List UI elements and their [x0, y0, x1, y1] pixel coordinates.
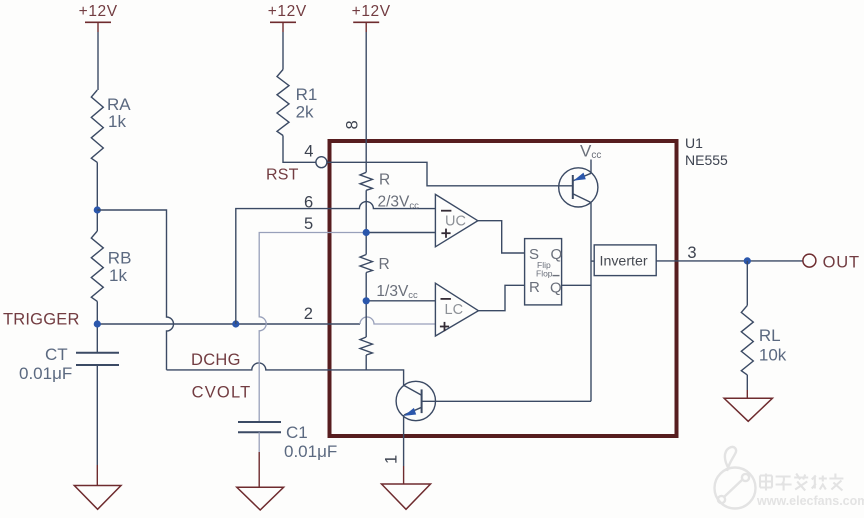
wire DCHG horizontal pin 7 (hops CVOLT)	[167, 363, 404, 385]
ground symbol 4	[724, 398, 772, 421]
resistor R1	[277, 70, 289, 136]
wire LC output to FF R	[478, 285, 524, 310]
svg-text:+12V: +12V	[79, 3, 118, 20]
wire Q2 emitter to ground pin 1	[403, 415, 405, 466]
svg-text:NE555: NE555	[685, 152, 728, 168]
wire +12V pin 8 into chip	[365, 32, 367, 172]
wire RB to trigger node	[96, 301, 98, 324]
wire R1 to RST pin circle	[283, 136, 316, 163]
wire 2/3 node to UC+	[366, 232, 435, 234]
wire divider R2-R3	[365, 273, 367, 338]
svg-text:R: R	[379, 256, 390, 273]
pin circle OUT	[803, 254, 816, 267]
power +12V rail 1	[79, 3, 118, 32]
label RL 10k	[759, 326, 787, 365]
wire RL to ground	[746, 375, 748, 390]
svg-text:8: 8	[344, 120, 362, 129]
svg-text:RB: RB	[108, 249, 132, 268]
label CT 0.01uF	[19, 345, 72, 383]
wire pin2 light segment to LC+ (hops divider)	[360, 317, 435, 324]
svg-text:Flop: Flop	[536, 268, 553, 278]
wire pin 3 output	[656, 260, 803, 262]
svg-text:+12V: +12V	[268, 3, 307, 20]
junction dot output node	[744, 257, 751, 264]
power +12V rail 3	[352, 3, 391, 32]
svg-text:OUT: OUT	[823, 253, 860, 271]
svg-text:RL: RL	[759, 326, 781, 345]
wire RA to junction	[96, 162, 98, 210]
svg-text:U1: U1	[685, 135, 703, 151]
wire pin 6 threshold (hops divider)	[236, 202, 436, 324]
svg-text:Q: Q	[550, 280, 562, 297]
junction dot trigger-CT node	[94, 320, 101, 327]
svg-text:5: 5	[304, 215, 313, 233]
svg-text:+12V: +12V	[352, 3, 391, 20]
op-amp comparator UC	[435, 194, 477, 246]
svg-text:2k: 2k	[296, 103, 314, 122]
ground symbol 1	[74, 486, 121, 510]
wire CT to ground	[96, 365, 98, 465]
svg-text:www.elecfans.com: www.elecfans.com	[756, 494, 864, 508]
transistor Q2 discharge	[396, 381, 591, 420]
wire 1/3 node to LC-	[366, 300, 435, 302]
internal resistor R top	[360, 172, 372, 190]
op-amp comparator LC	[435, 283, 478, 336]
svg-text:1: 1	[383, 455, 401, 464]
watermark chinese text placeholder	[760, 474, 843, 491]
label RA 1k	[107, 95, 131, 131]
svg-text:0.01μF: 0.01μF	[284, 442, 337, 461]
pin circle RST pin 4	[316, 157, 327, 168]
svg-text:4: 4	[304, 142, 313, 160]
resistor RL	[741, 305, 753, 375]
wire divider R1-R2	[365, 190, 367, 254]
label Flip Flop	[536, 260, 553, 278]
svg-text:Inverter: Inverter	[600, 253, 648, 269]
ground symbol 2	[237, 487, 284, 510]
svg-text:CT: CT	[45, 345, 68, 364]
label RB 1k	[108, 249, 132, 286]
svg-text:UC: UC	[445, 213, 466, 229]
svg-text:R: R	[529, 279, 540, 296]
wire output to RL	[746, 261, 748, 306]
wire C1 to ground	[258, 432, 260, 452]
watermark elecfans logo	[715, 447, 756, 509]
svg-text:6: 6	[304, 194, 313, 212]
svg-text:CVOLT: CVOLT	[192, 383, 252, 401]
junction dot node RA-RB	[94, 206, 101, 213]
svg-text:Q: Q	[551, 246, 563, 263]
svg-text:1k: 1k	[109, 266, 127, 285]
resistor RB	[91, 231, 103, 301]
wire stub to inverter input	[591, 260, 594, 262]
junction dot 1/3 node	[363, 297, 370, 304]
svg-text:10k: 10k	[759, 346, 787, 365]
svg-text:TRIGGER: TRIGGER	[3, 311, 80, 329]
wire +12V to R1	[282, 32, 284, 70]
internal resistor R bottom	[360, 337, 372, 355]
wire pin 5 CVOLT light path (hops trigger)	[259, 233, 366, 422]
op IC body U1 NE555 outline	[330, 141, 677, 436]
inverter box	[594, 245, 656, 276]
wire Q-bar output	[562, 284, 591, 286]
svg-text:DCHG: DCHG	[191, 351, 241, 369]
wire Q1 collector down to Q2 base	[590, 203, 592, 402]
wire RST into chip to Q1 base	[327, 162, 573, 186]
wire +12V to RA	[97, 32, 99, 90]
flip-flop box	[525, 239, 562, 305]
wire junction to RB	[96, 210, 98, 231]
svg-text:R1: R1	[296, 85, 318, 104]
svg-text:1k: 1k	[108, 112, 126, 131]
resistor RA	[91, 90, 103, 162]
svg-text:R: R	[379, 172, 390, 189]
svg-text:LC: LC	[445, 302, 464, 318]
transistor Q1 Vcc	[559, 160, 598, 207]
wire junction right and down to DCHG (hops trigger)	[97, 210, 173, 370]
svg-text:C1: C1	[286, 423, 308, 442]
ground symbol 3	[382, 484, 431, 509]
label R1 2k	[296, 85, 318, 122]
junction dot trigger-pin6 node	[232, 320, 239, 327]
capacitor CT	[76, 353, 119, 365]
internal resistor R mid	[360, 255, 372, 273]
wire UC output to FF S	[478, 221, 525, 253]
junction dot 2/3 node	[363, 229, 370, 236]
wire TRIGGER horizontal to chip pin 2	[97, 323, 360, 325]
svg-text:RST: RST	[266, 167, 299, 184]
wire divider bottom to DCHG line	[365, 355, 367, 370]
svg-text:3: 3	[687, 244, 696, 262]
svg-text:2: 2	[304, 305, 313, 323]
svg-text:0.01μF: 0.01μF	[19, 364, 72, 383]
capacitor C1	[238, 422, 281, 432]
wire trigger node to CT	[96, 324, 98, 353]
label C1 0.01uF	[284, 423, 337, 461]
power +12V rail 2	[268, 3, 307, 32]
